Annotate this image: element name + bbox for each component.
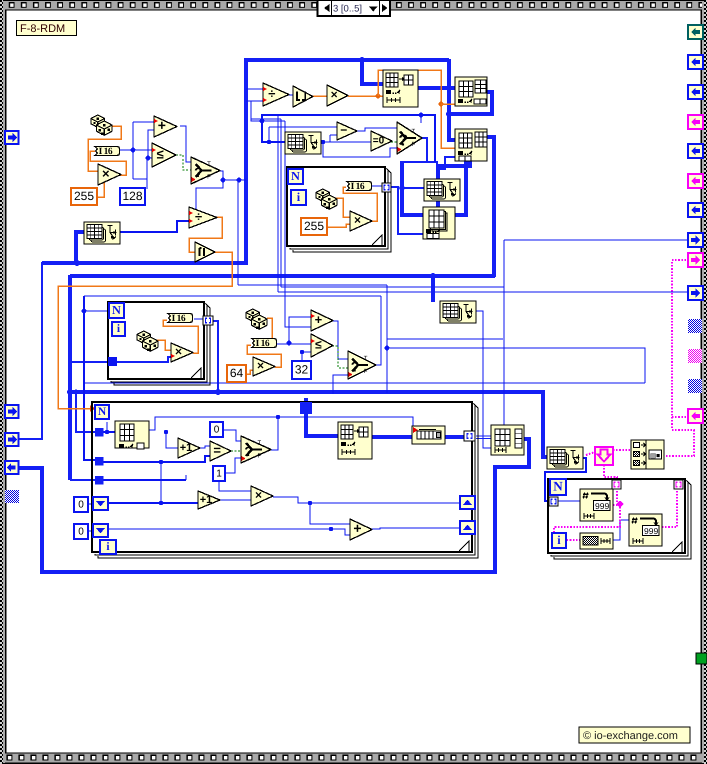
numeric constant 64: [227, 365, 246, 382]
shift register up 2: [460, 521, 475, 534]
sequence structure checkered right border: [700, 0, 707, 764]
numeric constant 255 b: [301, 218, 327, 235]
wire index3 out: [148, 417, 413, 430]
wire transposeBR out: [545, 458, 586, 501]
transpose 2D array 2b: [424, 179, 460, 201]
wire x84 down: [84, 296, 95, 460]
wire [] to icon999a: [558, 500, 580, 502]
I16 conversion 1: [95, 147, 119, 157]
green frame terminal: [696, 653, 707, 664]
array to cluster: [595, 447, 613, 465]
cluster wire: [663, 430, 694, 456]
greater-or-equal 64: [311, 334, 333, 357]
junction: [329, 527, 333, 531]
wire select1 out: [190, 171, 223, 212]
I16 conversion 4: [252, 339, 276, 349]
wire boolean: [391, 141, 397, 143]
transpose 2D array 2a: [285, 132, 321, 154]
junction: [82, 309, 87, 314]
loop count terminal N: [288, 169, 303, 184]
wire to add64 top: [289, 317, 311, 343]
wire select4 out: [271, 417, 278, 450]
stub: [108, 310, 109, 312]
wire div in2: [246, 100, 263, 102]
wire mult to I16: [90, 151, 126, 175]
transpose 2D array mid: [440, 301, 476, 323]
left tunnel in 2: [5, 405, 19, 418]
index array C: [455, 129, 487, 161]
cluster wire: [586, 452, 595, 455]
svg-text:N: N: [553, 479, 563, 494]
pink junction: [616, 501, 624, 508]
right tunnel 3: [688, 85, 703, 99]
wire to add top: [133, 121, 154, 123]
svg-text:−: −: [340, 123, 347, 137]
numeric constant 255: [71, 188, 97, 205]
cluster wire: [671, 262, 673, 428]
svg-text:i: i: [297, 190, 301, 204]
shift register up 1: [460, 496, 475, 509]
wire to transpose TL: [76, 232, 84, 263]
junction: [385, 346, 390, 351]
wire orange branch: [378, 70, 455, 148]
wire dith to 999b: [613, 520, 629, 540]
wire replace out x466: [455, 161, 466, 215]
svg-text:×: ×: [175, 345, 182, 359]
loop3 top thick tunnel: [300, 402, 312, 414]
array tunnel LP4 left: [549, 497, 558, 506]
loop2 data tunnel: [108, 357, 117, 366]
wire transpose-mid out: [471, 311, 491, 448]
wire y292 to tunnel: [278, 291, 689, 293]
I16 conversion 2: [347, 182, 371, 192]
wire loop3 t3: [103, 479, 186, 481]
right tunnel 4 pink: [688, 115, 703, 129]
svg-text:I 16: I 16: [256, 339, 270, 349]
wire C out down x494: [487, 137, 494, 277]
svg-text:×: ×: [331, 88, 338, 102]
wire to add low: [148, 130, 154, 158]
wire replace3 out: [372, 435, 465, 439]
left dithered tunnel: [5, 490, 19, 503]
wire select2 low in: [323, 142, 397, 157]
loop count terminal i: [291, 190, 306, 205]
loop count terminal N: [109, 303, 124, 318]
svg-text:999: 999: [595, 501, 609, 511]
wire boolean64: [332, 346, 348, 368]
for loop LP3 bottom: [92, 402, 478, 558]
left tunnel in 3: [5, 433, 19, 446]
for loop LP4 bottom-right: [548, 479, 691, 559]
junction: [321, 140, 325, 144]
cluster wire: [554, 507, 620, 540]
wire add1 out: [180, 126, 191, 162]
wire div in1: [246, 88, 263, 90]
I16 conversion 3: [168, 314, 192, 324]
cluster wire: [616, 488, 618, 503]
wire addB out: [372, 528, 460, 529]
junction: [73, 389, 78, 394]
copyright label io-exchange.com: [579, 727, 690, 743]
numeric constant 128: [120, 188, 145, 205]
wire y179: [133, 178, 147, 180]
junction: [146, 156, 151, 161]
wire I16 out: [118, 149, 133, 151]
svg-text:0: 0: [78, 500, 84, 511]
junction: [74, 260, 80, 266]
svg-text:1: 1: [216, 469, 222, 480]
wire dice1 to mult: [88, 126, 121, 171]
random number dice 4: [246, 309, 267, 329]
junction: [159, 501, 163, 505]
svg-text:+: +: [158, 117, 166, 133]
wire to icon C dims: [437, 157, 456, 169]
wire add64 out: [333, 321, 348, 359]
sequence structure outer film-strip border top: [0, 0, 707, 11]
wire bus y395 to transpose BR: [69, 392, 547, 457]
wire dice4 down: [267, 318, 272, 339]
wire y285: [238, 284, 387, 286]
svg-text:T: T: [258, 440, 262, 447]
wire to y121: [251, 101, 262, 121]
svg-text:© io-exchange.com: © io-exchange.com: [583, 730, 678, 742]
wire to geq low: [147, 158, 152, 179]
wire 32 to geq64: [302, 352, 311, 361]
wire x387: [386, 285, 388, 393]
wire to geq top: [133, 149, 152, 151]
wire loop2 inner: [116, 357, 171, 362]
svg-text:÷: ÷: [195, 209, 202, 224]
right tunnel 10: [688, 286, 703, 300]
junction: [446, 111, 452, 117]
multiply loop1: [350, 211, 372, 231]
wire x504: [503, 240, 505, 425]
round toward infinity: [195, 242, 215, 262]
wire x645-y348: [387, 348, 645, 383]
array tunnel LP3: [464, 431, 475, 441]
wire sr1: [108, 502, 198, 504]
wire I16c out: [194, 318, 204, 320]
svg-text:T: T: [364, 355, 368, 362]
add B: [350, 519, 372, 540]
wire 1 to multB: [219, 481, 251, 491]
numeric constant 0b: [74, 497, 88, 512]
junction: [131, 148, 136, 153]
wire branch to replace-A: [362, 60, 384, 84]
junction: [105, 430, 109, 434]
shift register down 2: [93, 524, 108, 537]
wire 0a to select: [223, 430, 241, 441]
wire 2D b: [476, 438, 491, 440]
add 64: [311, 310, 333, 331]
junction: [260, 119, 265, 124]
frame label F-8-RDM: [17, 21, 77, 36]
svg-text:=0: =0: [373, 136, 385, 147]
wire eq bool: [231, 450, 241, 452]
junction: [287, 341, 292, 346]
loop count terminal N: [550, 479, 566, 495]
wire minus in1: [269, 126, 337, 128]
wire vertical left x246: [244, 59, 248, 265]
wire mult to A: [348, 95, 383, 97]
random number dice 2: [316, 189, 337, 209]
divide 2: [189, 207, 217, 228]
index array E: [115, 421, 149, 449]
transpose 2D array TL: [84, 222, 120, 244]
cluster wire: [604, 465, 617, 481]
wire dice3 to mult: [157, 340, 171, 350]
svg-text:0: 0: [214, 425, 220, 436]
dithered array constant: [580, 533, 613, 549]
increment 1: [178, 438, 200, 458]
wire transposeTL out to div: [120, 221, 189, 232]
wire select2 top in: [420, 115, 422, 123]
loop count terminal i: [112, 322, 125, 336]
numeric constant 0c: [74, 524, 88, 539]
wire 0 to sr1: [88, 503, 95, 505]
right tunnel 2: [688, 55, 703, 69]
junction: [267, 140, 271, 144]
wire 2D a: [476, 435, 491, 437]
loop count terminal N: [95, 405, 109, 419]
wire inc1 to eq: [200, 446, 210, 448]
wire mult4 to I16d: [247, 345, 281, 367]
orange junction: [376, 94, 381, 99]
svg-text:N: N: [112, 303, 121, 317]
equal 1: [210, 441, 231, 461]
wire 1 to select: [225, 458, 241, 473]
wire down to loop tunnel a: [76, 392, 95, 432]
wire y296: [84, 295, 381, 297]
wire to N2: [84, 310, 109, 312]
right tunnel 1 teal: [688, 25, 703, 39]
multiply B: [251, 486, 273, 506]
svg-text:×: ×: [257, 359, 264, 373]
wire y287: [281, 286, 504, 288]
wire: [268, 127, 270, 142]
left tunnel out 4: [5, 461, 19, 474]
divide 1: [263, 83, 289, 106]
wire: [185, 475, 187, 480]
index array B: [455, 77, 487, 106]
sequence structure checkered left border: [0, 0, 7, 764]
wire 255 to mult: [97, 182, 104, 197]
wire bus y263: [42, 261, 248, 265]
random number dice 1: [91, 115, 112, 135]
numeric constant 1: [213, 466, 225, 481]
svg-text:N: N: [98, 406, 107, 418]
wire A out to B in: [418, 86, 456, 90]
select 4: [241, 436, 271, 463]
wire loop2 array out: [212, 321, 218, 392]
multiply 64: [253, 357, 275, 376]
loop3 tunnel b: [95, 457, 104, 466]
wire 64 to mult: [246, 370, 253, 374]
svg-text:▤■: ▤■: [650, 453, 660, 460]
wire select3 low in: [333, 375, 348, 394]
junction: [430, 273, 436, 279]
wire select2 out: [422, 138, 427, 162]
junction: [67, 389, 73, 395]
array tunnel LP4 right: [674, 480, 683, 489]
junction: [221, 178, 226, 183]
wire to transpose2b: [402, 187, 424, 189]
wire y162: [402, 161, 437, 163]
wire transpose2a in: [262, 121, 285, 142]
wire I16b out: [371, 185, 383, 187]
svg-text:0: 0: [78, 527, 84, 538]
replace array subset big: [338, 422, 372, 459]
svg-text:+1: +1: [200, 494, 213, 506]
wire select3 out up: [375, 296, 381, 365]
subtract 1: [337, 122, 357, 140]
sequence selector "3 [0..5]": [318, 0, 391, 16]
wire to B: [441, 103, 455, 105]
svg-text:≤: ≤: [315, 338, 322, 352]
svg-text:I 16: I 16: [351, 182, 365, 192]
svg-text:F-8-RDM: F-8-RDM: [20, 23, 65, 35]
wire tunnel4 index array out: [18, 439, 529, 572]
svg-text:I 16: I 16: [99, 147, 113, 157]
svg-text:i: i: [557, 533, 561, 547]
wire sr2 to addB: [108, 529, 350, 535]
round to nearest: [293, 86, 313, 107]
svg-text:+: +: [315, 312, 323, 327]
svg-text:64: 64: [230, 366, 244, 380]
right tunnel 8: [688, 233, 703, 247]
right dithered tunnel 12: [688, 349, 702, 363]
svg-text:T: T: [412, 128, 416, 135]
wire y383: [84, 382, 645, 384]
wire tunnel3: [18, 262, 42, 439]
wire floor to N: [58, 252, 232, 409]
wire dice2 to mult: [335, 198, 350, 217]
junction: [300, 350, 304, 354]
junction: [419, 113, 424, 118]
junction: [215, 389, 221, 395]
wire inc2 to multB: [220, 499, 251, 501]
multiply loop2: [171, 343, 193, 362]
wire mult2 to I16b: [343, 187, 377, 221]
wire x278: [277, 115, 279, 292]
junction: [194, 210, 199, 215]
right tunnel 6 pink: [688, 174, 703, 188]
svg-text:32: 32: [295, 363, 309, 377]
wire to loop tunnel c: [70, 479, 95, 481]
junction: [308, 501, 312, 505]
for loop LP2 mid-left: [108, 302, 210, 385]
right dithered tunnel 13: [688, 379, 702, 393]
wire x161: [160, 462, 162, 503]
auto-index out LP1: [382, 183, 391, 192]
wire minus in2: [330, 134, 337, 136]
transpose 2D array BR: [547, 447, 583, 469]
wire multB to SR up1: [273, 497, 460, 503]
svg-text:T: T: [207, 161, 211, 168]
wire transpose2a out: [319, 141, 372, 143]
wire 128 up: [146, 179, 148, 189]
wire x285 to add64 low: [285, 121, 311, 327]
wire 0 to sr2: [88, 530, 95, 532]
array tunnel LP4 top: [612, 480, 621, 489]
equal zero 1: [371, 131, 392, 151]
svg-text:F: F: [364, 368, 368, 375]
svg-text:×: ×: [255, 488, 262, 502]
multiply x1: [98, 164, 121, 185]
svg-text:×: ×: [354, 213, 361, 227]
junction: [276, 415, 280, 419]
right dithered tunnel 11: [688, 319, 702, 333]
wire I16d out: [277, 343, 311, 345]
svg-text:÷: ÷: [268, 86, 275, 101]
wire x133: [132, 122, 134, 179]
svg-text:N: N: [291, 169, 300, 183]
bundle cluster: [631, 440, 664, 469]
cluster wire: [613, 449, 631, 451]
wire y115 bus: [262, 115, 435, 162]
index array F: [491, 425, 524, 455]
increment 2: [198, 491, 220, 509]
index array D: [423, 207, 455, 239]
wire to inc1: [166, 432, 178, 448]
right tunnel 7: [688, 203, 703, 217]
wire loop3 t2: [103, 456, 210, 462]
wire y339: [387, 338, 503, 340]
right tunnel 5: [688, 144, 703, 158]
svg-text:255: 255: [74, 189, 94, 203]
random number dice 3: [137, 331, 158, 351]
svg-text:+1: +1: [180, 442, 193, 454]
svg-text:F: F: [412, 141, 416, 148]
for loop LP1 top-middle: [287, 167, 391, 252]
svg-text:128: 128: [122, 189, 142, 203]
right tunnel 9 pink: [688, 253, 703, 267]
svg-text:255: 255: [304, 219, 324, 233]
svg-text:≤: ≤: [157, 146, 164, 161]
loop3 tunnel a: [95, 428, 104, 437]
wire mult3 to I16c: [163, 320, 198, 353]
wire div2 to floor: [189, 217, 222, 252]
junction: [237, 178, 242, 183]
cluster wire: [613, 504, 620, 506]
replace array subset A: [383, 70, 418, 107]
multiply top: [327, 85, 348, 106]
wire B out: [450, 92, 492, 114]
sequence structure film-strip border bottom: [0, 752, 707, 764]
wire minus out: [357, 128, 397, 131]
loop count terminal i: [552, 533, 566, 548]
wire div to round: [289, 94, 293, 96]
add 1: [154, 116, 177, 137]
wire loop3 t1: [103, 431, 115, 433]
svg-text:999: 999: [644, 526, 658, 536]
junction: [164, 430, 168, 434]
wire x238: [237, 180, 239, 285]
stub: [106, 422, 108, 432]
svg-text:+: +: [353, 520, 361, 536]
search array 999 a: [580, 489, 613, 521]
svg-text:F: F: [207, 174, 211, 181]
wire y240 to tunnel8: [504, 239, 689, 241]
rotate 1D array: [412, 426, 445, 444]
wire loop1 array out: [390, 187, 423, 234]
cluster wire: [672, 259, 689, 261]
shift register down 1: [93, 497, 108, 510]
select 3: [348, 351, 376, 379]
wire C btm to replace2: [438, 161, 470, 207]
orange junction: [439, 102, 444, 107]
wire bus y276: [70, 274, 495, 278]
